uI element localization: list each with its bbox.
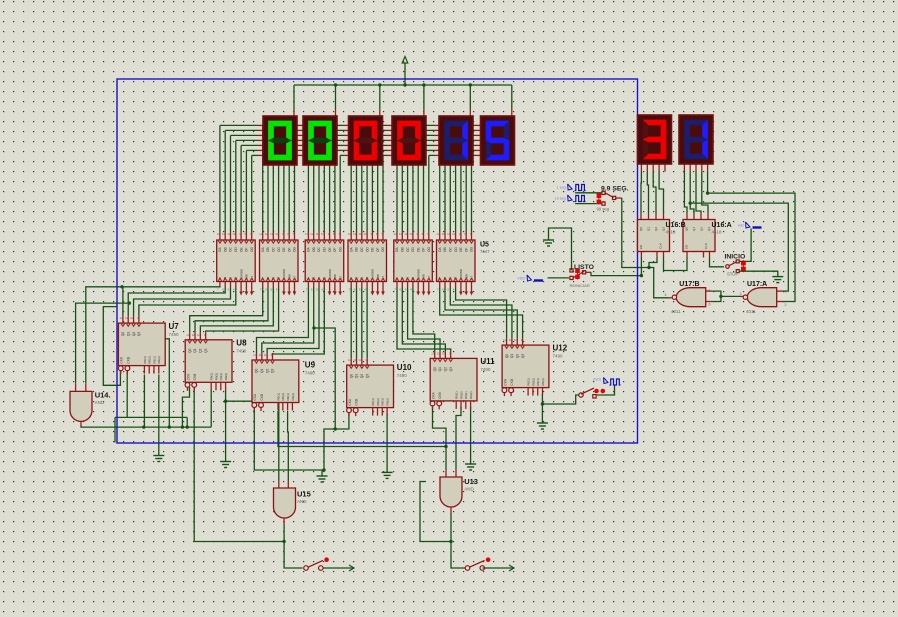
svg-text:4011: 4011 bbox=[746, 309, 756, 314]
svg-text:Q2: Q2 bbox=[360, 374, 364, 378]
svg-text:10: 10 bbox=[130, 316, 134, 320]
svg-text:CKA: CKA bbox=[253, 393, 257, 400]
svg-text:Q0: Q0 bbox=[188, 348, 192, 352]
svg-text:OD: OD bbox=[323, 247, 327, 252]
svg-text:4518: 4518 bbox=[666, 230, 677, 235]
svg-text:11: 11 bbox=[509, 338, 512, 342]
svg-text:R9(1): R9(1) bbox=[381, 398, 385, 406]
svg-text:4011: 4011 bbox=[671, 309, 681, 314]
svg-text:Q3: Q3 bbox=[365, 374, 369, 378]
svg-text:Q3: Q3 bbox=[449, 367, 453, 371]
svg-text:U13: U13 bbox=[464, 477, 478, 486]
svg-text:12: 12 bbox=[442, 232, 446, 236]
svg-text:12: 12 bbox=[119, 316, 123, 320]
svg-text:OF: OF bbox=[245, 248, 249, 252]
svg-text:U15: U15 bbox=[297, 490, 311, 499]
svg-text:STOP: STOP bbox=[727, 272, 739, 277]
svg-text:BI/RBO: BI/RBO bbox=[282, 268, 286, 279]
svg-text:CKB: CKB bbox=[193, 374, 197, 381]
svg-text:12: 12 bbox=[265, 232, 269, 236]
svg-text:11: 11 bbox=[437, 351, 440, 355]
svg-text:3: 3 bbox=[740, 292, 742, 296]
svg-text:11: 11 bbox=[270, 232, 273, 236]
svg-text:REINICIAR: REINICIAR bbox=[570, 283, 590, 288]
svg-text:13: 13 bbox=[394, 232, 398, 236]
svg-text:R0(2): R0(2) bbox=[148, 356, 152, 364]
svg-text:13: 13 bbox=[259, 232, 263, 236]
svg-text:R0(2): R0(2) bbox=[376, 398, 380, 406]
svg-text:R9(2): R9(2) bbox=[541, 378, 545, 386]
svg-text:12: 12 bbox=[503, 338, 507, 342]
svg-text:Q2: Q2 bbox=[700, 227, 704, 231]
svg-text:7490: 7490 bbox=[480, 367, 491, 372]
svg-text:R0(1): R0(1) bbox=[371, 398, 375, 406]
svg-text:4518: 4518 bbox=[712, 230, 723, 235]
svg-text:11: 11 bbox=[192, 333, 195, 337]
svg-text:U5: U5 bbox=[480, 242, 489, 249]
svg-text:CKA: CKA bbox=[120, 356, 124, 363]
svg-text:R0(2): R0(2) bbox=[531, 378, 535, 386]
svg-text:U9: U9 bbox=[305, 361, 316, 370]
svg-text:CKA: CKA bbox=[503, 378, 507, 385]
svg-text:R0(1): R0(1) bbox=[527, 378, 531, 386]
svg-text:VDD: VDD bbox=[517, 277, 525, 281]
svg-text:AND: AND bbox=[297, 499, 307, 504]
svg-text:12: 12 bbox=[348, 358, 352, 362]
svg-text:BI/RBO: BI/RBO bbox=[459, 268, 463, 279]
svg-text:U11: U11 bbox=[480, 357, 495, 366]
svg-text:Q1: Q1 bbox=[647, 227, 651, 231]
svg-text:U16:A: U16:A bbox=[712, 222, 732, 229]
svg-text:U8: U8 bbox=[236, 339, 247, 348]
svg-text:(NO): (NO) bbox=[593, 378, 601, 382]
svg-text:U7: U7 bbox=[169, 322, 180, 331]
svg-text:Q0: Q0 bbox=[685, 227, 689, 231]
svg-text:R9(2): R9(2) bbox=[469, 391, 473, 399]
svg-text:R0(1): R0(1) bbox=[143, 356, 147, 364]
svg-text:Q2: Q2 bbox=[515, 354, 519, 358]
svg-text:CKA: CKA bbox=[348, 398, 352, 405]
svg-text:LISTO: LISTO bbox=[574, 264, 594, 271]
svg-text:Q1: Q1 bbox=[692, 227, 696, 231]
svg-text:OC: OC bbox=[229, 247, 233, 252]
svg-text:12: 12 bbox=[353, 232, 357, 236]
svg-text:1 seg: 1 seg bbox=[557, 186, 566, 190]
svg-text:11: 11 bbox=[259, 353, 262, 357]
svg-text:BI/RBO: BI/RBO bbox=[416, 268, 420, 279]
svg-text:OD: OD bbox=[454, 247, 458, 252]
svg-text:5: 5 bbox=[709, 289, 711, 293]
svg-text:Q0: Q0 bbox=[639, 227, 643, 231]
svg-text:INICIO: INICIO bbox=[725, 254, 746, 261]
svg-text:OG: OG bbox=[250, 247, 254, 252]
svg-text:Q1: Q1 bbox=[193, 348, 197, 352]
svg-text:Q2: Q2 bbox=[199, 348, 203, 352]
svg-text:R9(1): R9(1) bbox=[286, 393, 290, 401]
svg-text:R0(2): R0(2) bbox=[214, 373, 218, 381]
svg-text:10: 10 bbox=[264, 353, 268, 357]
svg-text:10: 10 bbox=[197, 333, 201, 337]
svg-text:11: 11 bbox=[447, 232, 450, 236]
svg-text:Q1: Q1 bbox=[355, 374, 359, 378]
svg-text:R9(1): R9(1) bbox=[152, 356, 156, 364]
svg-text:9.9 SEG.: 9.9 SEG. bbox=[601, 186, 629, 193]
svg-text:12: 12 bbox=[310, 232, 314, 236]
svg-text:99 seg: 99 seg bbox=[597, 207, 610, 212]
svg-text:U16:B: U16:B bbox=[666, 222, 686, 229]
svg-text:OE: OE bbox=[416, 247, 420, 252]
svg-text:10: 10 bbox=[364, 232, 368, 236]
svg-text:10: 10 bbox=[442, 351, 446, 355]
svg-text:Q2: Q2 bbox=[444, 367, 448, 371]
svg-text:OB: OB bbox=[266, 247, 270, 252]
svg-text:AND: AND bbox=[464, 487, 474, 492]
svg-text:11: 11 bbox=[125, 316, 128, 320]
svg-text:Q0: Q0 bbox=[505, 354, 509, 358]
svg-text:OE: OE bbox=[239, 247, 243, 252]
svg-text:12: 12 bbox=[253, 353, 257, 357]
svg-text:U12: U12 bbox=[553, 344, 568, 353]
svg-text:EN: EN bbox=[685, 245, 689, 249]
svg-text:OB: OB bbox=[312, 247, 316, 252]
svg-text:1: 1 bbox=[785, 290, 787, 294]
svg-text:10: 10 bbox=[275, 232, 279, 236]
svg-text:CLK: CLK bbox=[659, 243, 663, 249]
svg-text:BI/RBO: BI/RBO bbox=[239, 268, 243, 279]
svg-text:OF: OF bbox=[422, 248, 426, 252]
svg-text:10: 10 bbox=[514, 338, 518, 342]
svg-text:U10: U10 bbox=[397, 363, 412, 372]
svg-text:vdd: vdd bbox=[738, 224, 744, 228]
svg-text:11: 11 bbox=[404, 232, 407, 236]
svg-text:7490: 7490 bbox=[397, 373, 408, 378]
svg-text:R9(2): R9(2) bbox=[291, 393, 295, 401]
svg-text:OE: OE bbox=[328, 247, 332, 252]
svg-text:CKB: CKB bbox=[355, 399, 359, 406]
svg-text:OE: OE bbox=[371, 247, 375, 252]
svg-text:12: 12 bbox=[222, 232, 226, 236]
svg-text:12: 12 bbox=[399, 232, 403, 236]
svg-text:R9(1): R9(1) bbox=[464, 391, 468, 399]
svg-text:CKB: CKB bbox=[438, 392, 442, 399]
svg-text:Q2: Q2 bbox=[132, 332, 136, 336]
svg-text:OB: OB bbox=[355, 247, 359, 252]
svg-text:6: 6 bbox=[709, 303, 711, 307]
svg-text:Q0: Q0 bbox=[349, 374, 353, 378]
svg-text:7490: 7490 bbox=[553, 354, 564, 359]
svg-text:Q3: Q3 bbox=[204, 348, 208, 352]
svg-text:2: 2 bbox=[785, 303, 787, 307]
svg-text:11: 11 bbox=[359, 232, 362, 236]
svg-text:R9(1): R9(1) bbox=[219, 373, 223, 381]
svg-text:OC: OC bbox=[360, 247, 364, 252]
svg-text:7490: 7490 bbox=[305, 371, 316, 376]
svg-text:OC: OC bbox=[317, 247, 321, 252]
svg-text:12: 12 bbox=[431, 351, 435, 355]
svg-text:OG: OG bbox=[293, 247, 297, 252]
svg-text:R9(1): R9(1) bbox=[536, 378, 540, 386]
svg-text:CLK: CLK bbox=[704, 243, 708, 249]
svg-text:OF: OF bbox=[464, 248, 468, 252]
svg-text:OD: OD bbox=[277, 247, 281, 252]
svg-text:Q3: Q3 bbox=[137, 332, 141, 336]
svg-text:R9(2): R9(2) bbox=[157, 356, 161, 364]
svg-text:10: 10 bbox=[321, 232, 325, 236]
svg-text:CKB: CKB bbox=[510, 379, 514, 386]
svg-text:R0(1): R0(1) bbox=[455, 391, 459, 399]
svg-text:R0(2): R0(2) bbox=[459, 391, 463, 399]
svg-text:13: 13 bbox=[216, 232, 220, 236]
svg-text:Q3: Q3 bbox=[271, 369, 275, 373]
svg-text:Q2: Q2 bbox=[654, 227, 658, 231]
svg-text:U17:A: U17:A bbox=[747, 281, 767, 288]
svg-text:7447: 7447 bbox=[480, 249, 490, 254]
svg-text:OD: OD bbox=[411, 247, 415, 252]
svg-text:R9(2): R9(2) bbox=[224, 373, 228, 381]
svg-text:OC: OC bbox=[272, 247, 276, 252]
svg-text:OF: OF bbox=[333, 248, 337, 252]
svg-text:Q0: Q0 bbox=[433, 367, 437, 371]
svg-text:10: 10 bbox=[232, 232, 236, 236]
svg-text:Q0: Q0 bbox=[121, 332, 125, 336]
svg-text:OG: OG bbox=[338, 247, 342, 252]
svg-text:CKA: CKA bbox=[431, 391, 435, 398]
svg-text:OB: OB bbox=[223, 247, 227, 252]
svg-text:Q1: Q1 bbox=[126, 332, 130, 336]
svg-text:13: 13 bbox=[348, 232, 352, 236]
svg-text:4: 4 bbox=[665, 293, 667, 297]
svg-text:OG: OG bbox=[427, 247, 431, 252]
svg-text:11: 11 bbox=[353, 358, 356, 362]
svg-text:R0(1): R0(1) bbox=[210, 373, 214, 381]
svg-text:10: 10 bbox=[452, 232, 456, 236]
svg-text:OD: OD bbox=[365, 247, 369, 252]
svg-text:10: 10 bbox=[358, 358, 362, 362]
svg-text:CKB: CKB bbox=[260, 394, 264, 401]
svg-text:13: 13 bbox=[305, 232, 309, 236]
svg-text:OF: OF bbox=[376, 248, 380, 252]
svg-text:Q1: Q1 bbox=[438, 367, 442, 371]
svg-text:12: 12 bbox=[186, 333, 190, 337]
svg-text:R9(2): R9(2) bbox=[386, 398, 390, 406]
svg-text:OB: OB bbox=[401, 247, 405, 252]
svg-text:CKA: CKA bbox=[186, 373, 190, 380]
svg-text:EN: EN bbox=[639, 245, 643, 249]
svg-text:U14.: U14. bbox=[95, 391, 111, 400]
svg-text:OC: OC bbox=[449, 247, 453, 252]
svg-text:10: 10 bbox=[409, 232, 413, 236]
svg-text:13: 13 bbox=[436, 232, 440, 236]
svg-text:CKB: CKB bbox=[126, 357, 130, 364]
svg-text:BI/RBO: BI/RBO bbox=[328, 268, 332, 279]
svg-text:7490: 7490 bbox=[169, 332, 180, 337]
svg-text:OG: OG bbox=[470, 247, 474, 252]
svg-text:Q1: Q1 bbox=[260, 369, 264, 373]
svg-text:R0(2): R0(2) bbox=[281, 393, 285, 401]
svg-text:7490: 7490 bbox=[236, 349, 247, 354]
svg-text:Q3: Q3 bbox=[521, 354, 525, 358]
svg-text:OE: OE bbox=[282, 247, 286, 252]
svg-text:11: 11 bbox=[316, 232, 319, 236]
svg-text:Q2: Q2 bbox=[265, 369, 269, 373]
svg-text:OD: OD bbox=[234, 247, 238, 252]
svg-text:AND: AND bbox=[95, 400, 105, 405]
svg-text:11: 11 bbox=[227, 232, 230, 236]
svg-text:OF: OF bbox=[287, 248, 291, 252]
svg-text:BI/RBO: BI/RBO bbox=[371, 268, 375, 279]
svg-text:U17:B: U17:B bbox=[679, 281, 699, 288]
svg-text:R0(1): R0(1) bbox=[276, 393, 280, 401]
svg-text:OG: OG bbox=[381, 247, 385, 252]
svg-text:OC: OC bbox=[406, 247, 410, 252]
svg-text:Q0: Q0 bbox=[255, 369, 259, 373]
svg-text:10 seg: 10 seg bbox=[555, 197, 566, 201]
svg-text:OB: OB bbox=[443, 247, 447, 252]
svg-text:OE: OE bbox=[459, 247, 463, 252]
svg-text:Q1: Q1 bbox=[510, 354, 514, 358]
